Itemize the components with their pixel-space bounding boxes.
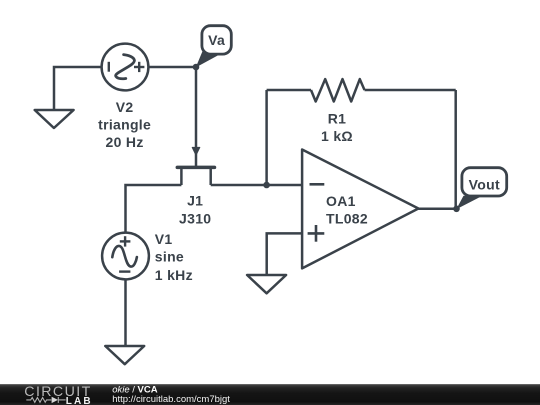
svg-text:LAB: LAB: [66, 396, 93, 405]
wire R1 right lead: [365, 89, 456, 92]
logo diode triangle: [52, 397, 58, 403]
wire op-amp output to node Vout: [418, 208, 456, 211]
svg-text:J1: J1: [187, 193, 203, 209]
wire feedback down to output node: [454, 90, 457, 209]
svg-text:1 kHz: 1 kHz: [155, 267, 193, 283]
svg-text:1 kΩ: 1 kΩ: [321, 128, 353, 144]
svg-text:TL082: TL082: [326, 210, 368, 226]
svg-text:OA1: OA1: [326, 193, 356, 209]
svg-text:triangle: triangle: [98, 117, 151, 133]
net flag Vout: [456, 168, 506, 210]
net flag Va: [196, 26, 232, 68]
ground (op-amp non-inverting): [247, 275, 286, 293]
wire J1 source to V1: [126, 185, 182, 233]
footer bar: [0, 384, 540, 405]
svg-text:Va: Va: [208, 32, 225, 48]
svg-text:J310: J310: [179, 210, 211, 226]
svg-text:http://circuitlab.com/cm7bjgt: http://circuitlab.com/cm7bjgt: [112, 394, 230, 405]
logo resistor-diode squiggle: [26, 397, 65, 403]
svg-text:V2: V2: [116, 99, 134, 115]
node feedback junction dot: [263, 182, 270, 189]
resistor R1: [311, 79, 365, 101]
node Vout junction dot: [453, 206, 460, 213]
ground (V1): [105, 346, 144, 364]
voltage source V1 (sine): [102, 233, 149, 280]
wire J1 drain to op-amp inverting input: [211, 184, 302, 187]
svg-text:V1: V1: [155, 231, 173, 247]
wire ground to op-amp non-inverting input: [267, 233, 302, 275]
transistor J1 (JFET): [177, 147, 214, 185]
wire V1 minus to ground: [124, 279, 127, 346]
node Va junction dot: [193, 64, 200, 71]
svg-text:20 Hz: 20 Hz: [106, 134, 144, 150]
wire junction up to R1: [265, 90, 268, 185]
wire V2 minus lead to ground: [54, 67, 102, 110]
wire R1 left lead: [267, 89, 311, 92]
op-amp OA1: [302, 150, 418, 269]
svg-text:R1: R1: [328, 110, 347, 126]
voltage source V2 (triangle wave): [102, 44, 149, 91]
wire node Va to J1 gate: [195, 67, 198, 166]
ground (V2 minus): [35, 110, 74, 128]
svg-text:sine: sine: [155, 249, 184, 265]
wire V2 plus to node Va: [148, 66, 196, 69]
svg-text:Vout: Vout: [469, 177, 500, 193]
